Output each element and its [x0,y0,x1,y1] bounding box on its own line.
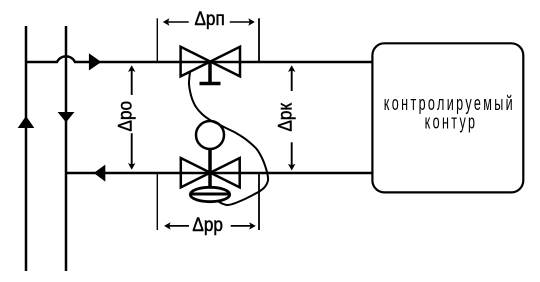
bottom return pipe [66,172,373,175]
balancing valve V1 stem [208,62,212,84]
regulator diaphragm middle line [190,193,229,196]
svg-text:Δрр: Δрр [192,213,223,235]
regulator valve body (bowtie) on bottom pipe [181,158,240,187]
dimension Δрр left extension tick [156,174,158,230]
return riser pipe (second vertical line) [65,26,68,271]
dimension Δрк vertical line with arrows [291,69,293,92]
dimension Δрп left extension tick [156,18,158,61]
dimension Δрп right extension tick [258,18,260,61]
dimension Δрр left arrow [168,225,189,227]
regulator stem [208,149,212,188]
balancing valve V1 handle bar [200,82,221,86]
regulator diaphragm (ellipse) [190,187,229,201]
svg-text:Δро: Δро [114,101,136,132]
controlled circuit box [372,43,523,192]
flow arrow left on bottom pipe [94,165,106,182]
impulse tube (S-curve from valve V1 to regulator diaphragm) [189,72,268,206]
top supply pipe with crossover hump at return riser [26,56,373,62]
dimension Δро vertical line with arrows [131,69,133,95]
dimension Δрп left arrow [167,21,189,23]
flow arrow down on return riser [58,112,75,122]
flow arrow up on supply riser [18,116,35,128]
svg-text:контур: контур [425,111,478,134]
regulator actuator head (circle) [196,121,224,149]
flow arrow right on top pipe [89,53,101,70]
svg-text:Δрк: Δрк [274,102,296,131]
supply riser pipe (left vertical line) [25,26,28,271]
dimension Δрп right arrow [230,21,251,23]
balancing valve V1 body (bowtie) on top pipe [181,47,240,77]
svg-text:Δрп: Δрп [194,7,224,29]
dimension Δрр right arrow [231,225,252,227]
dimension Δрр right extension tick [258,174,260,230]
